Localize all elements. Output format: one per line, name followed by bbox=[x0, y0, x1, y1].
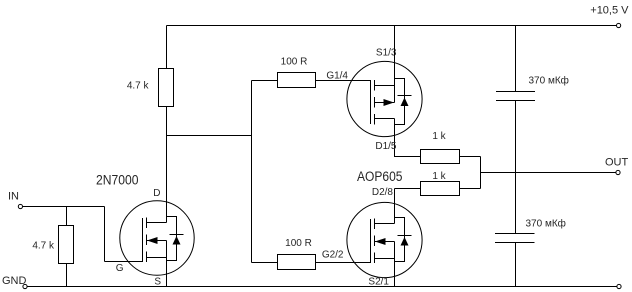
transistor U1a drain stub bbox=[375, 118, 395, 120]
wire R3 to U1a gate bbox=[316, 80, 371, 82]
transistor Q1 2N7000 body circle bbox=[120, 201, 194, 275]
transistor U1b AOP605 lower body diode branch bbox=[395, 218, 405, 262]
wire C1 to OUT node to C2 bbox=[515, 101, 517, 234]
transistor Q1 2N7000 diode arrow bbox=[173, 236, 181, 245]
wire node junction to gate splitter bbox=[167, 135, 252, 137]
wire C2 to ground rail bbox=[515, 243, 517, 287]
terminal ground right bbox=[617, 284, 621, 288]
wire U1b source to ground rail bbox=[394, 242, 396, 287]
resistor R3 100R bbox=[278, 73, 316, 88]
terminal GND bbox=[23, 284, 27, 288]
transistor Q1 2N7000 drain stub bbox=[147, 222, 167, 224]
transistor U1b AOP605 lower body stub with arrow bbox=[375, 238, 395, 259]
transistor U1b AOP605 lower channel bar segments bbox=[374, 219, 376, 264]
wire ground rail bbox=[27, 286, 617, 288]
resistor R4 100R bbox=[278, 255, 316, 270]
transistor U1a diode arrow bbox=[401, 98, 409, 107]
svg-text:OUT: OUT bbox=[605, 157, 629, 169]
wire rail to C1 bbox=[515, 26, 517, 92]
transistor U1b AOP605 lower drain stub bbox=[375, 223, 395, 225]
transistor U1b AOP605 lower source stub bbox=[375, 258, 395, 260]
svg-text:S: S bbox=[154, 277, 161, 288]
transistor U1b AOP605 lower diode arrow bbox=[401, 237, 409, 246]
transistor U1a body stub with arrow bbox=[375, 86, 395, 107]
svg-text:GND: GND bbox=[2, 275, 27, 287]
svg-text:1 k: 1 k bbox=[432, 171, 446, 182]
svg-text:370 мКф: 370 мКф bbox=[526, 218, 566, 230]
svg-text:+10,5 V: +10,5 V bbox=[590, 5, 629, 17]
svg-text:1 k: 1 k bbox=[432, 131, 446, 142]
transistor Q1 2N7000 body diode branch bbox=[167, 217, 177, 261]
svg-text:G1/4: G1/4 bbox=[326, 71, 348, 82]
transistor Q1 2N7000 gate bar bbox=[142, 218, 144, 262]
terminal IN bbox=[18, 204, 22, 208]
resistor R6 1k bbox=[421, 182, 460, 196]
wire R4 to U1b gate bbox=[316, 262, 371, 264]
transistor Q1 2N7000 body stub with arrow bbox=[147, 237, 167, 258]
resistor R2 4.7k bbox=[59, 226, 74, 264]
wire splitter to R4 left bbox=[252, 262, 278, 264]
wire output combiner vertical bbox=[480, 157, 482, 189]
svg-text:370 мКф: 370 мКф bbox=[529, 75, 569, 87]
transistor U1a diode cathode bar bbox=[398, 95, 412, 97]
wire IN to gate corner bbox=[23, 206, 105, 208]
svg-text:IN: IN bbox=[8, 191, 19, 203]
transistor U1a source stub bbox=[375, 85, 395, 87]
svg-text:S1/3: S1/3 bbox=[376, 48, 397, 59]
terminal +10.5V bbox=[617, 23, 621, 27]
svg-text:4.7 k: 4.7 k bbox=[32, 241, 55, 252]
wire IN node down to R2 bbox=[66, 207, 68, 226]
wire R6 right bbox=[460, 188, 481, 190]
transistor U1b AOP605 lower diode cathode bar bbox=[398, 235, 412, 237]
transistor U1a body diode branch bbox=[395, 79, 405, 125]
wire U1a drain to R5 bbox=[395, 119, 421, 157]
terminal OUT bbox=[616, 170, 620, 174]
svg-text:2N7000: 2N7000 bbox=[96, 173, 139, 188]
wire to Q1 gate bbox=[105, 261, 143, 263]
transistor U1b AOP605 lower body circle bbox=[347, 202, 422, 277]
svg-text:S2/1: S2/1 bbox=[368, 277, 389, 288]
svg-text:G: G bbox=[116, 263, 124, 274]
transistor U1a AOP605 upper body circle bbox=[347, 61, 422, 136]
svg-text:D1/5: D1/5 bbox=[375, 141, 397, 152]
capacitor C1 370uF bbox=[496, 92, 535, 101]
wire top +10.5V rail bbox=[167, 25, 617, 27]
wire OUT line bbox=[481, 172, 616, 174]
wire gate splitter vertical bbox=[251, 81, 253, 263]
resistor R1 4.7k bbox=[159, 69, 174, 107]
svg-text:D: D bbox=[153, 188, 160, 199]
transistor U1a channel bar segments bbox=[374, 80, 376, 125]
wire U1b drain to R6 bbox=[395, 189, 421, 224]
svg-text:D2/8: D2/8 bbox=[372, 187, 394, 198]
transistor Q1 2N7000 channel bar segments bbox=[146, 218, 148, 263]
wire from rail down to R1 bbox=[166, 26, 168, 69]
svg-text:100 R: 100 R bbox=[281, 57, 308, 68]
capacitor C2 370uF bbox=[495, 234, 535, 243]
wire R2 to ground rail bbox=[66, 264, 68, 287]
wire to R3 left bbox=[252, 80, 278, 82]
wire R5 right bbox=[460, 156, 481, 158]
svg-text:100 R: 100 R bbox=[285, 238, 312, 249]
transistor U1a gate bar bbox=[370, 80, 372, 124]
svg-text:4.7 k: 4.7 k bbox=[127, 81, 150, 92]
wire down to Q1 gate level bbox=[104, 207, 106, 262]
resistor R5 1k bbox=[421, 150, 460, 164]
svg-text:AOP605: AOP605 bbox=[357, 169, 403, 184]
transistor U1b AOP605 lower gate bar bbox=[370, 219, 372, 263]
wire rail to U1a source bbox=[394, 26, 396, 86]
transistor Q1 2N7000 diode cathode bar bbox=[170, 234, 184, 236]
wire R1 bottom to Q1 drain bbox=[166, 107, 168, 223]
wire Q1 source to ground rail bbox=[166, 241, 168, 287]
transistor Q1 2N7000 source stub bbox=[147, 257, 167, 259]
svg-text:G2/2: G2/2 bbox=[322, 250, 344, 261]
